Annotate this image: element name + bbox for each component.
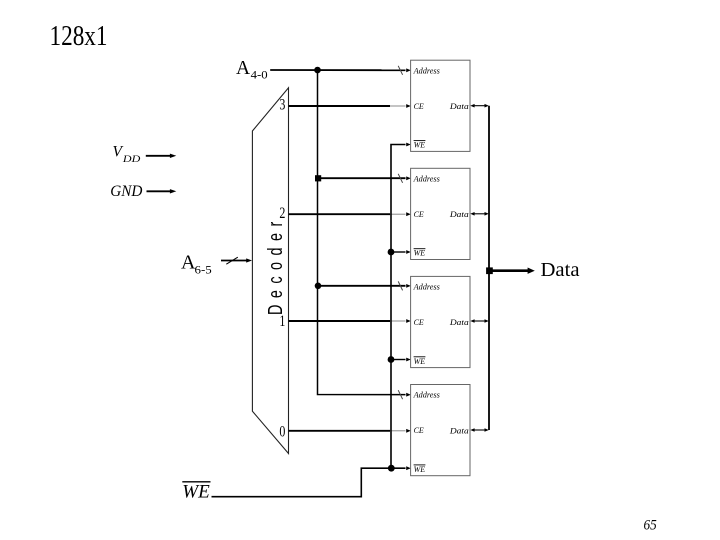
wire WE vertical bus	[391, 145, 406, 469]
svg-text:Address: Address	[413, 65, 441, 75]
junction dot node A4-0	[314, 67, 321, 74]
svg-text:Address: Address	[413, 390, 441, 400]
svg-text:DD: DD	[122, 155, 141, 165]
wire thick data arrow	[490, 269, 529, 272]
GND arrow	[147, 190, 171, 192]
svg-text:Data: Data	[541, 259, 580, 281]
svg-text:A: A	[236, 58, 250, 79]
arrowhead into U3 address	[406, 284, 411, 288]
svg-text:WE: WE	[182, 482, 210, 503]
svg-text:CE: CE	[414, 425, 425, 435]
wire decoder output 1 to U3 CE	[289, 320, 391, 322]
arrowhead into U1 WE	[406, 143, 411, 147]
bus slash A6-5	[226, 257, 238, 264]
svg-text:Data: Data	[449, 317, 469, 327]
wire A6-5 into decoder	[221, 260, 247, 262]
svg-text:WE: WE	[414, 248, 426, 258]
bus slash U3 address	[398, 281, 402, 290]
svg-text:CE: CE	[414, 101, 425, 111]
junction dot WE U3	[388, 356, 395, 363]
wire WE to U2	[391, 251, 406, 253]
bus slash U1 address	[398, 66, 402, 75]
wire address to U3	[318, 285, 406, 287]
wire decoder output 3 to U1 CE	[289, 105, 391, 107]
wire data U1	[474, 105, 485, 107]
bus slash U2 address	[398, 174, 402, 183]
svg-text:2: 2	[279, 205, 285, 222]
wire decoder output 0 to U4 CE	[289, 430, 391, 432]
wire WE to U3	[391, 359, 406, 361]
wire A4-0 horizontal to chip U1 address	[270, 69, 405, 71]
memory chip U2	[411, 168, 470, 259]
WE-bar label	[182, 482, 210, 503]
memory chip U3	[411, 276, 470, 367]
wire address vertical bus	[318, 70, 406, 395]
svg-text:Decoder: Decoder	[264, 215, 287, 315]
wire WE-bar feed	[212, 468, 392, 497]
svg-text:Data: Data	[449, 101, 469, 111]
svg-text:65: 65	[644, 517, 657, 533]
arrowhead into U4 address	[406, 393, 411, 397]
svg-text:V: V	[113, 144, 124, 161]
arrowhead into U1 address	[406, 68, 411, 72]
svg-text:Data: Data	[449, 425, 469, 435]
svg-text:WE: WE	[414, 356, 426, 366]
wire data vertical bus	[488, 106, 490, 430]
svg-text:1: 1	[279, 313, 285, 330]
junction dot address to U3	[315, 283, 322, 290]
decoder U5 outline	[252, 88, 288, 454]
bus slash U4 address	[398, 390, 402, 399]
wire data U4	[474, 429, 485, 431]
node A4-0 label	[236, 58, 268, 82]
wire data U2	[474, 213, 485, 215]
node A6-5 label	[181, 252, 212, 277]
wire address to U2	[318, 177, 406, 179]
memory chip U1	[411, 60, 470, 151]
junction dot WE U4	[388, 465, 395, 472]
arrowhead into U2 address	[406, 176, 411, 180]
wire decoder output 2 to U2 CE	[289, 213, 391, 215]
svg-text:Address: Address	[413, 282, 441, 292]
svg-text:0: 0	[279, 424, 285, 441]
junction dot WE U2	[388, 249, 395, 256]
VDD arrow	[146, 155, 171, 157]
junction square dot data node	[486, 267, 493, 274]
svg-text:Data: Data	[449, 209, 469, 219]
svg-text:WE: WE	[414, 140, 426, 150]
svg-text:CE: CE	[414, 317, 425, 327]
svg-text:GND: GND	[110, 183, 142, 200]
svg-text:4-0: 4-0	[251, 70, 268, 82]
svg-text:128x1: 128x1	[50, 21, 108, 52]
svg-text:3: 3	[279, 96, 285, 113]
svg-text:WE: WE	[414, 464, 426, 474]
junction square dot address to U2	[315, 175, 321, 181]
svg-text:6-5: 6-5	[195, 262, 212, 276]
arrowhead into decoder	[246, 258, 252, 262]
VDD label	[113, 144, 141, 166]
memory chip U4	[411, 385, 470, 476]
svg-text:Address: Address	[413, 174, 441, 184]
svg-text:CE: CE	[414, 209, 425, 219]
wire data U3	[474, 320, 485, 322]
